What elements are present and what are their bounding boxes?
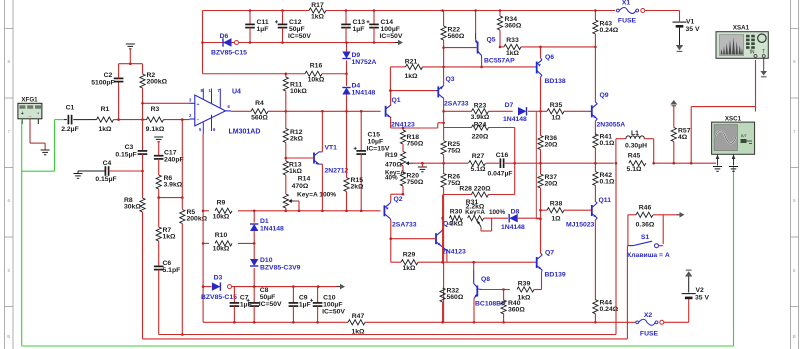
resistor R18: [400, 128, 423, 152]
transistor VT1 2N2712: [286, 111, 349, 211]
capacitor C2: [91, 64, 123, 87]
svg-text:Key=A 100%: Key=A 100%: [297, 192, 336, 199]
svg-text:XSC1: XSC1: [725, 115, 742, 122]
wire -rail: [203, 321, 348, 324]
wire C2 branch: [118, 82, 120, 120]
svg-text:BZV85-C15: BZV85-C15: [211, 50, 247, 57]
transistor Q6 BD138: [534, 47, 566, 111]
resistor R46: [628, 205, 677, 246]
diode D8: [501, 209, 541, 232]
svg-text:1N4148: 1N4148: [501, 224, 525, 231]
diode D1: [250, 211, 284, 245]
inductor L1: [615, 130, 655, 165]
resistor R3: [146, 106, 190, 133]
capacitor C13: [341, 11, 365, 43]
svg-text:2kΩ: 2kΩ: [290, 136, 304, 143]
diode D3: [201, 275, 337, 302]
svg-text:10kΩ: 10kΩ: [213, 214, 230, 221]
node C3-C4-R8: [141, 170, 144, 173]
svg-text:1µF: 1µF: [257, 26, 269, 33]
wire +rail top right: [326, 9, 615, 12]
svg-text:C9: C9: [299, 295, 308, 302]
svg-text:Key=A: Key=A: [465, 209, 485, 216]
resistor R6: [156, 175, 183, 227]
svg-text:200kΩ: 200kΩ: [147, 79, 168, 86]
resistor R26: [441, 163, 461, 322]
svg-text:R24: R24: [474, 121, 487, 128]
svg-text:50µF: 50µF: [289, 26, 305, 33]
resistor R8: [124, 171, 145, 339]
svg-text:R21: R21: [405, 59, 418, 66]
potentiometer R19: [385, 152, 413, 182]
wire R16-R11 column top: [285, 76, 287, 78]
svg-text:50µF: 50µF: [260, 294, 276, 301]
svg-text:20Ω: 20Ω: [545, 181, 559, 188]
svg-text:560Ω: 560Ω: [251, 115, 268, 122]
capacitor C3: [115, 144, 147, 171]
svg-text:+: +: [21, 111, 24, 117]
svg-text:0.1Ω: 0.1Ω: [600, 179, 615, 186]
resistor R7: [156, 227, 176, 266]
svg-text:220Ω: 220Ω: [472, 134, 489, 141]
wire +rail top: [203, 9, 310, 12]
svg-text:5100pF: 5100pF: [91, 80, 114, 87]
svg-text:R46: R46: [639, 205, 652, 212]
capacitor C14: [367, 11, 403, 43]
wire R20-Q2 emitter: [391, 193, 405, 196]
svg-text:4Ω: 4Ω: [678, 134, 688, 141]
capacitor C4: [74, 160, 143, 183]
svg-text:5.1Ω: 5.1Ω: [471, 166, 486, 173]
svg-text:D9: D9: [352, 52, 361, 59]
svg-text:3kΩ: 3kΩ: [450, 220, 464, 227]
svg-text:10kΩ: 10kΩ: [290, 88, 307, 95]
svg-text:35 V: 35 V: [686, 26, 700, 33]
svg-text:1kΩ: 1kΩ: [289, 168, 303, 175]
resistor R44: [593, 300, 619, 324]
svg-text:Клавиша = A: Клавиша = A: [627, 252, 670, 259]
svg-text:R39: R39: [518, 281, 531, 288]
resistor R45: [627, 153, 646, 174]
svg-text:XSA1: XSA1: [733, 24, 750, 31]
diode D10: [250, 243, 301, 286]
svg-text:1Ω: 1Ω: [551, 115, 561, 122]
wire output net: [412, 162, 468, 165]
wire scope/analyzer link: [691, 60, 755, 163]
wire bottom rail upper: [159, 163, 616, 334]
instrument XSC1 oscilloscope: [712, 115, 755, 154]
svg-text:R33: R33: [506, 37, 519, 44]
transistor Q7 BD139: [534, 219, 566, 290]
svg-text:C6: C6: [163, 260, 172, 267]
resistor R11: [283, 74, 307, 129]
capacitor C8: [247, 287, 282, 323]
svg-text:0.30µH: 0.30µH: [625, 143, 647, 150]
svg-text:C3: C3: [125, 144, 134, 151]
resistor R47: [348, 313, 365, 336]
svg-text:D3: D3: [214, 275, 223, 282]
svg-text:B: B: [793, 334, 796, 339]
wire R1-R3 node: [117, 118, 147, 121]
svg-text:100µF: 100µF: [323, 302, 342, 309]
transistor Q11 MJ15023: [566, 197, 611, 300]
resistor R25: [441, 141, 461, 164]
svg-text:20Ω: 20Ω: [545, 142, 559, 149]
svg-text:0.15µF: 0.15µF: [115, 152, 136, 159]
resistor R30: [443, 209, 464, 228]
resistor R57: [670, 100, 690, 163]
svg-text:2N4123: 2N4123: [391, 121, 415, 128]
capacitor C6: [154, 260, 180, 335]
svg-text:360Ω: 360Ω: [505, 23, 522, 30]
svg-text:1Ω: 1Ω: [551, 216, 561, 223]
svg-text:C14: C14: [381, 19, 394, 26]
svg-text:D7: D7: [505, 102, 514, 109]
resistor R37: [538, 174, 558, 252]
potentiometer R14: [283, 176, 336, 211]
svg-text:560Ω: 560Ω: [447, 294, 464, 301]
connector arrow -rail: [337, 284, 345, 290]
svg-text:35 V: 35 V: [695, 294, 709, 301]
svg-text:470Ω: 470Ω: [385, 162, 402, 169]
connector arrow R46: [677, 212, 685, 218]
resistor R35: [539, 102, 587, 122]
wire output to scope: [654, 162, 716, 165]
svg-text:30kΩ: 30kΩ: [124, 204, 141, 211]
wire output net mid: [515, 162, 614, 165]
svg-text:0.1Ω: 0.1Ω: [600, 140, 615, 147]
ground loop: [126, 44, 135, 64]
svg-text:Q7: Q7: [545, 250, 554, 257]
svg-text:1N4148: 1N4148: [352, 90, 376, 97]
capacitor C7: [230, 287, 252, 323]
resistor R21: [389, 59, 534, 92]
svg-text:C17: C17: [164, 150, 177, 157]
wire driver rail: [540, 47, 542, 58]
svg-text:1kΩ: 1kΩ: [404, 73, 418, 80]
svg-text:470Ω: 470Ω: [292, 183, 309, 190]
potentiometer R31: [465, 199, 508, 231]
svg-text:C10: C10: [323, 295, 336, 302]
resistor R27: [469, 153, 500, 173]
svg-text:1kΩ: 1kΩ: [506, 50, 520, 57]
svg-text:VT1: VT1: [325, 145, 338, 152]
svg-text:IN: IN: [750, 50, 755, 56]
svg-text:3.9kΩ: 3.9kΩ: [164, 182, 183, 189]
transistor Q5 BC557AP: [444, 11, 515, 67]
svg-text:BZV85-C3V9: BZV85-C3V9: [260, 265, 301, 272]
svg-text:360Ω: 360Ω: [508, 307, 525, 314]
svg-text:C1: C1: [66, 105, 75, 112]
capacitor C16: [487, 152, 516, 178]
svg-text:0.047µF: 0.047µF: [487, 171, 512, 178]
resistor R40: [501, 290, 525, 324]
svg-text:D1: D1: [260, 218, 269, 225]
svg-text:75Ω: 75Ω: [448, 148, 462, 155]
svg-text:U4: U4: [232, 89, 241, 96]
diode D9: [342, 43, 376, 76]
svg-text:100%: 100%: [489, 209, 506, 216]
resistor R29: [391, 252, 534, 273]
svg-text:1kΩ: 1kΩ: [98, 126, 112, 133]
svg-text:5.1Ω: 5.1Ω: [627, 166, 642, 173]
battery V1 35V: [673, 11, 700, 52]
resistor R34: [497, 11, 521, 49]
svg-text:C8: C8: [260, 287, 269, 294]
svg-text:1µF: 1µF: [299, 302, 311, 309]
resistor R20: [400, 166, 423, 195]
diode D7: [503, 102, 541, 123]
resistor R36: [538, 77, 558, 174]
svg-text:750Ω: 750Ω: [407, 179, 424, 186]
svg-text:R45: R45: [628, 153, 641, 160]
resistor R10: [203, 232, 254, 253]
svg-text:10µF: 10µF: [368, 139, 384, 146]
svg-text:Q11: Q11: [599, 197, 612, 204]
svg-text:IC=50V: IC=50V: [259, 301, 282, 308]
svg-text:R16: R16: [310, 63, 323, 70]
resistor R1: [90, 106, 119, 133]
svg-text:75Ω: 75Ω: [448, 180, 462, 187]
svg-text:Q2: Q2: [394, 196, 403, 203]
ground XFG1: [41, 150, 50, 155]
svg-text:BD138: BD138: [545, 78, 566, 85]
svg-text:R30: R30: [450, 209, 463, 216]
ground R19 wiper: [418, 163, 427, 172]
svg-text:40%: 40%: [385, 175, 398, 182]
wire loop top: [119, 62, 143, 65]
transistor Q4 2N4123: [391, 220, 466, 262]
wire left power column: [201, 11, 204, 74]
ground XSA1 T pin: [760, 58, 767, 77]
svg-text:560Ω: 560Ω: [448, 33, 465, 40]
svg-text:Q8: Q8: [481, 276, 490, 283]
svg-text:B: B: [7, 334, 10, 339]
svg-text:V1: V1: [686, 19, 695, 26]
connector arrow +rail: [395, 40, 403, 46]
svg-text:9.1kΩ: 9.1kΩ: [146, 126, 165, 133]
svg-text:2kΩ: 2kΩ: [351, 184, 365, 191]
transistor Q2 2SA733: [384, 194, 416, 262]
svg-text:1µF: 1µF: [353, 26, 365, 33]
resistor R41: [593, 133, 615, 163]
resistor R15: [344, 111, 364, 211]
wire -rail right: [365, 321, 636, 323]
wire op-amp + input: [141, 102, 189, 105]
svg-text:R3: R3: [151, 106, 160, 113]
wire green input/scope net: [22, 120, 734, 346]
svg-text:Q1: Q1: [392, 97, 401, 104]
resistor R22: [441, 11, 465, 67]
svg-text:2SA733: 2SA733: [444, 101, 469, 108]
diode D4: [342, 74, 375, 112]
resistor R43: [593, 11, 619, 47]
svg-text:5.1pF: 5.1pF: [163, 267, 181, 274]
svg-text:Q9: Q9: [600, 92, 609, 99]
svg-text:0.36Ω: 0.36Ω: [636, 222, 655, 229]
svg-text:L1: L1: [631, 130, 639, 137]
svg-text:Q3: Q3: [446, 76, 455, 83]
transistor Q1 2N4123: [386, 91, 445, 130]
transistor Q8 BC108BP: [473, 262, 506, 323]
svg-text:0.24Ω: 0.24Ω: [600, 27, 619, 34]
wire bias chain: [536, 111, 540, 219]
svg-text:R23: R23: [474, 103, 487, 110]
resistor R42: [593, 163, 615, 202]
battery V2 35V: [682, 270, 710, 322]
resistor R4: [231, 100, 381, 122]
svg-text:200kΩ: 200kΩ: [187, 216, 208, 223]
wire op-amp balance line: [202, 134, 205, 322]
svg-text:BZV85-C15: BZV85-C15: [201, 294, 237, 301]
svg-text:R4: R4: [255, 100, 264, 107]
capacitor C10: [310, 287, 345, 323]
svg-text:X2: X2: [644, 312, 653, 319]
svg-text:BD139: BD139: [545, 272, 566, 279]
wire feedback column: [181, 118, 184, 209]
svg-text:IC=50V: IC=50V: [322, 309, 345, 316]
svg-text:2N3055A: 2N3055A: [597, 122, 626, 129]
op-amp U4 LM301AD: [189, 88, 260, 136]
resistor R28: [444, 186, 515, 198]
resistor R2: [140, 64, 168, 150]
svg-text:2N2712: 2N2712: [325, 168, 349, 175]
svg-text:0.15µF: 0.15µF: [95, 176, 116, 183]
svg-text:D10: D10: [260, 257, 273, 264]
svg-text:R29: R29: [403, 252, 416, 259]
svg-text:1N4148: 1N4148: [503, 116, 527, 123]
svg-text:2.2µF: 2.2µF: [61, 126, 79, 133]
fuse X2: [636, 312, 689, 338]
svg-text:Q6: Q6: [545, 54, 554, 61]
svg-text:R35: R35: [550, 102, 563, 109]
svg-text:100µF: 100µF: [381, 26, 400, 33]
svg-text:X1: X1: [622, 0, 631, 7]
resistor R23: [444, 103, 513, 122]
wire Q6-R43 link: [540, 46, 542, 48]
resistor R9: [203, 200, 380, 221]
svg-text:1kΩ: 1kΩ: [163, 234, 177, 241]
svg-text:C11: C11: [257, 19, 269, 26]
svg-text:1kΩ: 1kΩ: [311, 14, 325, 21]
svg-text:LM301AD: LM301AD: [229, 129, 261, 136]
svg-text:_: _: [28, 111, 32, 117]
instrument XSA1 spectrum analyzer: [716, 24, 768, 58]
transistor Q3 2SA733: [435, 67, 468, 140]
svg-text:R38: R38: [550, 201, 563, 208]
capacitor C17: [154, 142, 184, 175]
svg-text:-: -: [37, 111, 39, 117]
svg-text:C12: C12: [289, 19, 302, 26]
svg-text:1N752A: 1N752A: [352, 59, 377, 66]
svg-text:10kΩ: 10kΩ: [308, 77, 325, 84]
switch S1: [627, 234, 670, 259]
svg-text:R9: R9: [217, 200, 226, 207]
wire +15 rail: [203, 41, 396, 44]
svg-text:2SA733: 2SA733: [392, 222, 417, 229]
svg-text:MJ15023: MJ15023: [566, 222, 595, 229]
svg-text:BC557AP: BC557AP: [484, 58, 515, 65]
svg-text:C13: C13: [353, 19, 366, 26]
resistor R24: [444, 121, 515, 194]
wire XFG1 common to ground: [30, 120, 45, 150]
transistor Q9 2N3055A: [587, 47, 625, 133]
svg-text:+: +: [196, 102, 199, 108]
svg-text:T: T: [762, 49, 765, 55]
svg-text:750Ω: 750Ω: [407, 141, 424, 148]
diode D6: [211, 33, 247, 57]
svg-text:R17: R17: [311, 2, 324, 9]
svg-text:D4: D4: [352, 83, 361, 90]
wire Q4 collector column: [441, 195, 444, 263]
svg-text:C4: C4: [103, 160, 112, 167]
resistor R13: [283, 161, 302, 194]
probe XSC1 A: [713, 154, 722, 171]
wire R6-R5 link: [157, 196, 183, 199]
capacitor C12: [275, 11, 311, 43]
capacitor C1: [61, 105, 89, 134]
svg-text:B/T: B/T: [741, 134, 748, 138]
probe XSC1 B: [729, 154, 738, 171]
svg-text:FUSE: FUSE: [618, 18, 637, 25]
resistor R16: [203, 63, 347, 84]
resistor R17: [309, 2, 326, 21]
svg-text:C15: C15: [368, 132, 381, 139]
svg-text:IC=50V: IC=50V: [288, 33, 311, 40]
resistor R39: [482, 281, 542, 302]
svg-text:R47: R47: [352, 313, 365, 320]
svg-text:C16: C16: [496, 152, 509, 159]
capacitor C11: [245, 11, 269, 43]
resistor R5: [180, 209, 208, 336]
svg-text:R27: R27: [472, 153, 485, 160]
svg-text:2N4123: 2N4123: [442, 249, 466, 256]
resistor R32: [440, 288, 464, 324]
capacitor C15: [354, 111, 390, 211]
svg-text:3.9kΩ: 3.9kΩ: [471, 114, 490, 121]
capacitor C9: [289, 287, 311, 323]
svg-text:XFG1: XFG1: [21, 97, 38, 104]
svg-text:R28 220Ω: R28 220Ω: [459, 186, 491, 193]
wire bottom rail lower: [143, 246, 628, 339]
svg-text:R1: R1: [101, 106, 110, 113]
svg-text:R14: R14: [298, 176, 311, 183]
svg-text:FUSE: FUSE: [640, 331, 659, 338]
ground C17: [154, 137, 163, 142]
svg-text:10kΩ: 10kΩ: [213, 246, 230, 253]
svg-text:Q5: Q5: [487, 37, 496, 44]
resistor R33: [500, 37, 597, 57]
svg-text:V2: V2: [696, 287, 705, 294]
svg-text:1kΩ: 1kΩ: [402, 265, 416, 272]
resistor R12: [283, 129, 303, 162]
resistor R38: [541, 201, 592, 223]
svg-text:C2: C2: [104, 72, 113, 79]
svg-text:240pF: 240pF: [164, 157, 184, 164]
svg-text:1N4148: 1N4148: [260, 226, 284, 233]
svg-text:S1: S1: [641, 234, 650, 241]
svg-text:IC=50V: IC=50V: [380, 33, 403, 40]
svg-text:D8: D8: [511, 209, 520, 216]
svg-text:R19: R19: [385, 152, 398, 159]
svg-text:R10: R10: [215, 232, 228, 239]
fuse X1: [617, 0, 680, 25]
svg-text:D6: D6: [220, 33, 229, 40]
instrument XFG1 function generator: [18, 97, 42, 125]
